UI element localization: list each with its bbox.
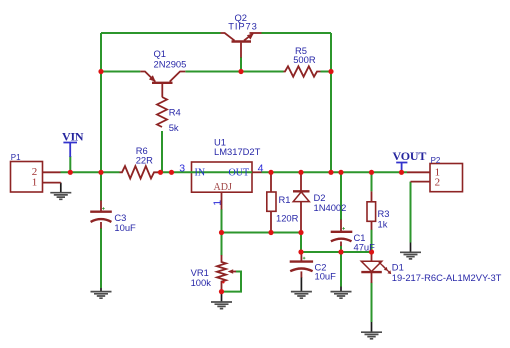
svg-text:P1: P1 — [11, 153, 21, 162]
wire R3 bottom — [371, 230, 373, 253]
junction (D2 bottom) — [298, 230, 303, 235]
connector P2 pin 2 lead — [411, 181, 431, 183]
diode D2 — [293, 174, 310, 233]
regulator U1 OUT pin lead — [252, 171, 262, 173]
connector P2 pin 1 lead — [407, 171, 430, 173]
junction (VR1 bottom) — [219, 289, 224, 294]
connector P1 pin 2 lead — [43, 171, 61, 173]
junction (R3 top) — [369, 170, 374, 175]
svg-text:2N2905: 2N2905 — [154, 58, 187, 69]
wire second rail left — [101, 71, 140, 73]
wire main input rail — [61, 171, 120, 173]
wire C3 bottom to ground — [100, 228, 102, 288]
capacitor C2 — [290, 252, 313, 278]
junction (left drop / second rail) — [98, 69, 103, 74]
svg-text:D1: D1 — [392, 261, 404, 272]
transistor Q1 — [140, 72, 185, 98]
junction (C2 top) — [298, 249, 303, 254]
junction (right drop / output rail) — [328, 170, 333, 175]
junction (R1 bottom) — [268, 230, 273, 235]
svg-text:4: 4 — [258, 162, 264, 174]
wire C3 top drop — [100, 172, 102, 201]
ground (P1 pin 1) — [50, 183, 71, 200]
wire VR1 wiper loop — [222, 272, 241, 292]
capacitor C3 — [90, 201, 112, 229]
wire R4 bottom — [161, 131, 163, 172]
potentiometer VR1 — [217, 255, 236, 292]
junction (D1 top) — [369, 249, 374, 254]
wire R3 top — [371, 172, 373, 191]
svg-text:VOUT: VOUT — [393, 149, 427, 163]
wire left drop VIN rail — [100, 33, 102, 172]
wire top rail left — [101, 32, 221, 34]
svg-text:1k: 1k — [378, 218, 388, 229]
wire P2 pin2 drop — [410, 182, 412, 243]
resistor R1 leads — [270, 174, 272, 233]
wire ADJ rail — [222, 232, 302, 234]
svg-text:22R: 22R — [136, 155, 153, 166]
wire C1 bottom to rail — [340, 246, 342, 253]
svg-text:19-217-R6C-AL1M2VY-3T: 19-217-R6C-AL1M2VY-3T — [392, 272, 502, 283]
svg-text:IN: IN — [195, 168, 206, 179]
power port VIN — [62, 129, 84, 157]
wire drop to lower rail — [300, 233, 302, 253]
svg-text:1: 1 — [212, 200, 224, 206]
junction (R4 branch) — [158, 170, 163, 175]
svg-text:VIN: VIN — [62, 129, 84, 143]
junction (Q2 base) — [238, 69, 243, 74]
connector P2 body — [430, 164, 463, 192]
junction (U1 IN pin) — [169, 170, 174, 175]
svg-text:TIP73: TIP73 — [228, 21, 258, 32]
wire VR1 top — [221, 233, 223, 256]
regulator U1 body — [192, 162, 253, 192]
ground (C3) — [91, 288, 112, 299]
junction (C1 bottom) — [338, 249, 343, 254]
junction (VOUT) — [399, 170, 404, 175]
resistor R4 — [157, 97, 167, 127]
svg-text:47uF: 47uF — [354, 242, 376, 253]
svg-text:R1: R1 — [279, 194, 291, 205]
wire Q2 base — [240, 57, 242, 72]
junction (C1 top) — [338, 170, 343, 175]
svg-text:500R: 500R — [293, 54, 316, 65]
power port VOUT — [393, 149, 427, 171]
svg-text:1N4002: 1N4002 — [314, 202, 347, 213]
connector P1 body — [11, 162, 43, 193]
svg-text:2: 2 — [435, 176, 441, 188]
svg-text:100k: 100k — [191, 277, 212, 288]
wire VIN net stem — [69, 156, 71, 172]
svg-text:P2: P2 — [431, 156, 441, 165]
svg-text:OUT: OUT — [229, 168, 250, 179]
ground (C2) — [291, 277, 312, 298]
svg-text:ADJ: ADJ — [214, 182, 232, 193]
ground (D1) — [361, 322, 382, 339]
junction (D2 top) — [298, 170, 303, 175]
wire top rail right — [262, 32, 332, 34]
ground (C1 branch) — [331, 286, 352, 298]
svg-text:R4: R4 — [169, 107, 181, 118]
svg-text:10uF: 10uF — [315, 271, 337, 282]
wire ADJ drop — [221, 209, 223, 233]
junction (R1 top) — [268, 170, 273, 175]
ground (VR1) — [211, 292, 232, 309]
wire lower rail — [301, 251, 372, 253]
wire D1 bottom — [371, 283, 373, 323]
svg-text:10uF: 10uF — [114, 222, 136, 233]
regulator U1 ADJ pin lead — [221, 192, 223, 210]
junction (left drop / input rail) — [98, 170, 103, 175]
wire U1 OUT rail — [262, 171, 408, 173]
wire R6 to U1 through body — [158, 171, 252, 173]
svg-text:1: 1 — [32, 177, 38, 189]
junction (R5 right) — [328, 69, 333, 74]
resistor R6 — [120, 166, 161, 178]
LED D1 — [361, 252, 391, 283]
resistor R5 — [284, 66, 321, 76]
connector P1 pin 1 lead — [43, 182, 61, 184]
svg-text:3: 3 — [179, 162, 185, 174]
ground (P2 pin 2) — [400, 242, 421, 259]
svg-text:LM317D2T: LM317D2T — [214, 146, 261, 157]
transistor Q2 — [221, 33, 262, 58]
wire C1 rail to ground — [340, 252, 342, 287]
resistor R1 body — [267, 192, 276, 211]
wire C1 top drop — [340, 172, 342, 220]
capacitor C1 — [331, 220, 353, 247]
junction (VIN / input rail) — [68, 170, 73, 175]
wire second rail middle — [185, 71, 283, 73]
wire second rail right of R5 — [321, 71, 332, 73]
wire right drop from top rail — [330, 33, 332, 172]
resistor R3 body — [367, 202, 376, 222]
svg-text:120R: 120R — [276, 213, 299, 224]
resistor R3 leads — [371, 191, 373, 229]
junction (ADJ rail left) — [219, 230, 224, 235]
svg-text:5k: 5k — [169, 122, 179, 133]
